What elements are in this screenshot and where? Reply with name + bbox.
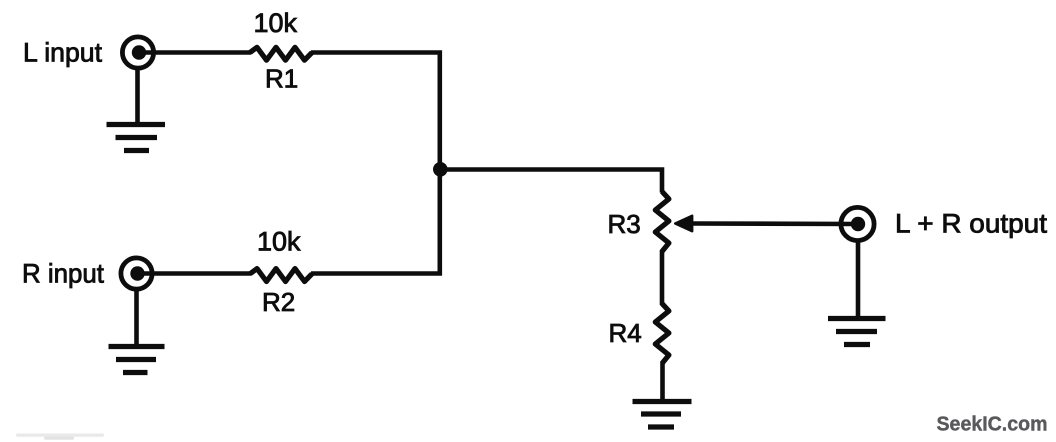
svg-text:SeekIC.com: SeekIC.com — [937, 413, 1048, 436]
svg-text:L + R output: L + R output — [895, 209, 1048, 239]
potentiometer R3 (element) — [655, 192, 669, 252]
svg-text:10k: 10k — [254, 8, 298, 38]
connector J1 (L input phono jack) — [122, 37, 153, 68]
resistor R2 — [250, 269, 312, 282]
wire R1 to vertical bus corner then down to junction — [311, 53, 440, 171]
svg-text:L input: L input — [23, 38, 102, 68]
wire L input jack to ground — [135, 68, 140, 125]
ground under L input jack — [107, 125, 166, 151]
wire L input jack to R1 — [140, 50, 251, 55]
connector J3 (L + R output phono jack) — [841, 207, 874, 240]
faint scan artifact bottom-left — [16, 434, 104, 440]
junction node A — [433, 162, 448, 177]
wiper arrow of R3 — [675, 216, 692, 232]
wire output jack to ground — [856, 240, 861, 319]
wire junction down to R2 corner — [311, 170, 440, 274]
wire wiper arrow to output jack — [690, 221, 857, 226]
wire R input jack to R2 — [139, 271, 251, 276]
svg-text:R3: R3 — [608, 209, 641, 239]
wire R3 bottom to R4 top — [660, 250, 665, 305]
resistor R4 — [655, 304, 669, 364]
connector J2 (R input phono jack) — [121, 258, 152, 289]
wire junction to R3 top — [440, 170, 662, 193]
wire R input jack to ground — [134, 289, 139, 347]
wire R4 bottom to ground — [660, 362, 665, 402]
svg-text:R4: R4 — [609, 318, 642, 348]
ground under output jack — [828, 319, 886, 345]
svg-text:R1: R1 — [265, 64, 298, 94]
ground under R4 — [633, 402, 692, 428]
ground under R input jack — [109, 347, 165, 373]
svg-text:R2: R2 — [262, 287, 295, 317]
svg-text:10k: 10k — [257, 227, 301, 257]
resistor R1 — [250, 47, 312, 60]
svg-text:R input: R input — [22, 259, 104, 289]
